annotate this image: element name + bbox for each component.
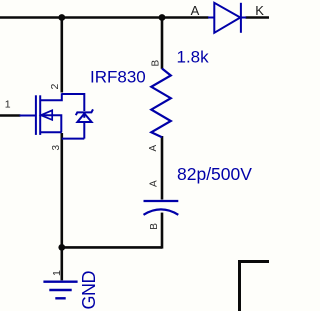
wire resistor bottom [161, 136, 164, 200]
wire top rail right [246, 16, 270, 19]
svg-text:B: B [151, 60, 162, 67]
body diode top branch [62, 94, 85, 111]
wire gate [0, 114, 20, 117]
svg-text:K: K [255, 3, 264, 18]
wire capacitor bottom [161, 213, 164, 249]
wire drain vertical [60, 18, 63, 93]
transistor Q1 MOSFET IRF830 [20, 93, 94, 138]
cathode bar [240, 3, 242, 33]
body diode apex stub [83, 113, 85, 118]
svg-text:82p/500V: 82p/500V [177, 164, 252, 184]
wire top rail left [0, 16, 209, 19]
wire bottom rail [62, 246, 162, 249]
wire resistor top [161, 18, 164, 69]
anode lead [208, 17, 214, 19]
svg-text:A: A [149, 180, 160, 187]
bulk line [40, 115, 61, 132]
ground symbol [43, 282, 77, 299]
drain stub [40, 93, 62, 100]
body diode zener bar [76, 109, 93, 115]
cap flat plate [144, 200, 179, 202]
wire source vertical [60, 133, 63, 249]
connector box corner (bottom right) [240, 262, 270, 311]
node junction drain/top [58, 14, 65, 21]
cathode lead [241, 17, 246, 19]
bulk arrow [41, 110, 52, 120]
svg-text:IRF830: IRF830 [90, 68, 146, 87]
wire gnd stub [60, 247, 63, 280]
svg-text:2: 2 [49, 84, 61, 90]
cap curved plate [144, 209, 179, 214]
resistor R1 1.8k [151, 69, 171, 138]
svg-text:A: A [191, 3, 200, 18]
svg-text:GND: GND [79, 271, 99, 310]
svg-text:A: A [148, 145, 159, 152]
svg-text:3: 3 [51, 145, 62, 151]
capacitor C1 82p/500V [144, 201, 179, 215]
body diode bottom branch [62, 138, 85, 140]
source stub [40, 131, 62, 133]
svg-text:B: B [149, 223, 160, 230]
body diode triangle [77, 114, 91, 123]
gate lead [20, 115, 36, 117]
diode D1 [208, 3, 246, 33]
node junction resistor/top [159, 14, 166, 21]
svg-text:1.8k: 1.8k [177, 48, 210, 67]
body diode bottom lead [83, 122, 85, 139]
svg-text:1: 1 [5, 99, 11, 111]
channel bar [39, 95, 41, 135]
svg-text:1: 1 [51, 270, 63, 276]
node junction gnd [58, 244, 65, 251]
gate plate [35, 95, 37, 135]
diode triangle [214, 3, 240, 33]
